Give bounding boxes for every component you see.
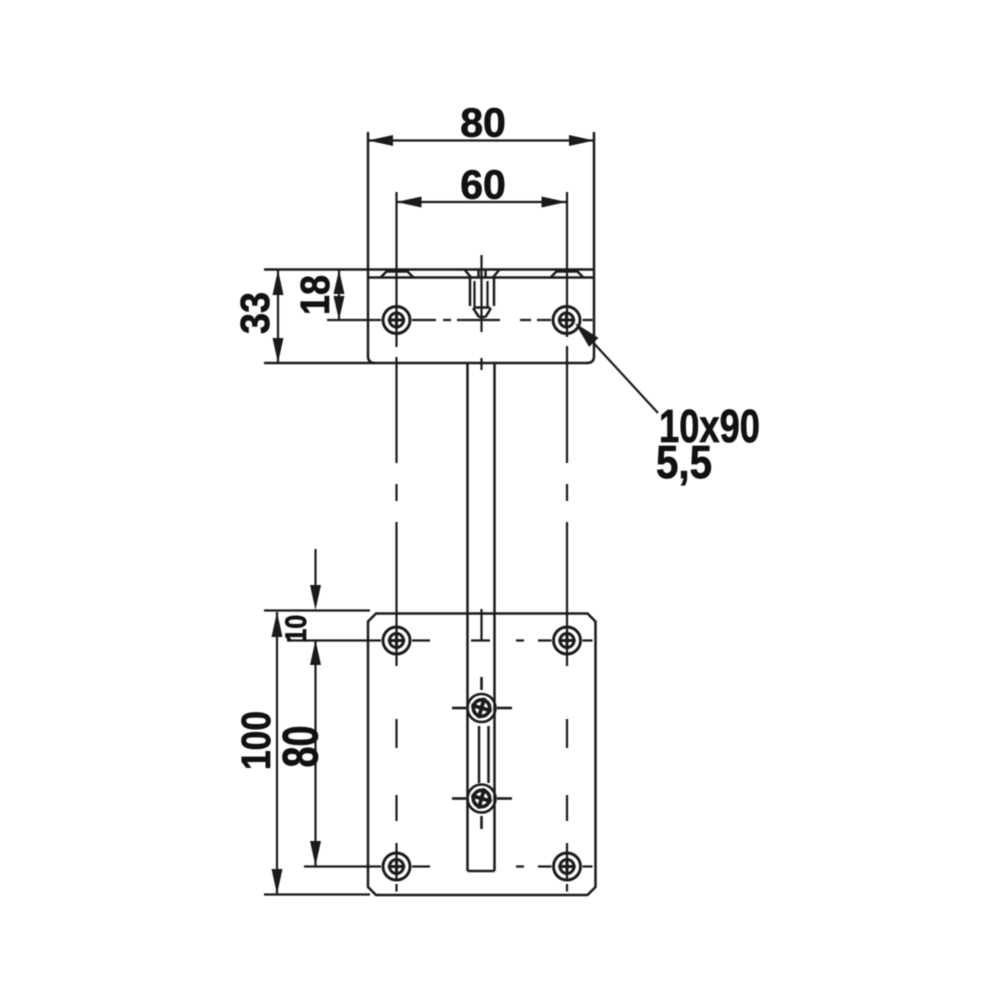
- svg-text:10: 10: [280, 615, 313, 643]
- svg-text:33: 33: [232, 292, 278, 334]
- svg-text:18: 18: [292, 275, 338, 315]
- svg-text:80: 80: [460, 100, 506, 146]
- svg-text:80: 80: [273, 726, 329, 768]
- svg-text:60: 60: [460, 162, 506, 208]
- svg-text:5,5: 5,5: [656, 436, 712, 488]
